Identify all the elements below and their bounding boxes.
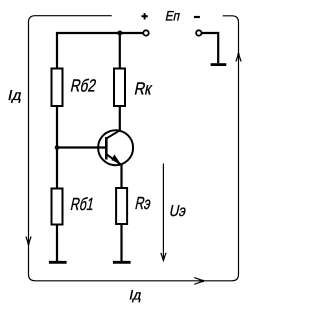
ground tick under Re — [113, 261, 131, 264]
arrow on left loop wire (down) — [26, 237, 31, 245]
wire: left column vertical (through Rb2, base node, Rb1) — [56, 33, 58, 262]
resistor Rk — [114, 69, 125, 107]
arrow on right loop wire (up) — [236, 54, 241, 62]
resistor Rb1 — [52, 189, 63, 225]
node: junction dot on top rail — [117, 31, 122, 36]
wire: base lead — [57, 146, 106, 148]
resistor Re — [116, 188, 127, 224]
transistor body circle — [98, 130, 133, 165]
svg-text:Rб2: Rб2 — [69, 75, 98, 95]
ground tick at minus terminal — [211, 63, 227, 66]
node: base junction dot — [55, 145, 60, 150]
svg-text:Rб1: Rб1 — [69, 194, 96, 214]
- sign — [194, 16, 200, 18]
ground tick under Rb1 — [49, 261, 67, 264]
collector diagonal — [106, 130, 120, 138]
resistor Rb2 — [52, 69, 63, 107]
arrow Ue (down) with line — [162, 164, 164, 261]
wire: collector column (rail to transistor) — [119, 33, 121, 131]
wire: Id loop contour (thin, rounded corners) — [29, 16, 239, 281]
emitter arrow — [111, 154, 120, 162]
- terminal circle — [196, 30, 201, 35]
transistor VT (npn) — [98, 130, 133, 165]
wire: minus terminal to common bar — [202, 33, 218, 63]
base bar — [105, 137, 108, 160]
wire: emitter column (transistor to tick) — [120, 165, 122, 262]
+ sign — [141, 13, 147, 19]
+ terminal circle — [143, 30, 148, 35]
wire: top supply rail — [56, 32, 143, 34]
emitter diagonal — [106, 154, 122, 165]
arrow on bottom loop wire (right) — [194, 278, 203, 285]
